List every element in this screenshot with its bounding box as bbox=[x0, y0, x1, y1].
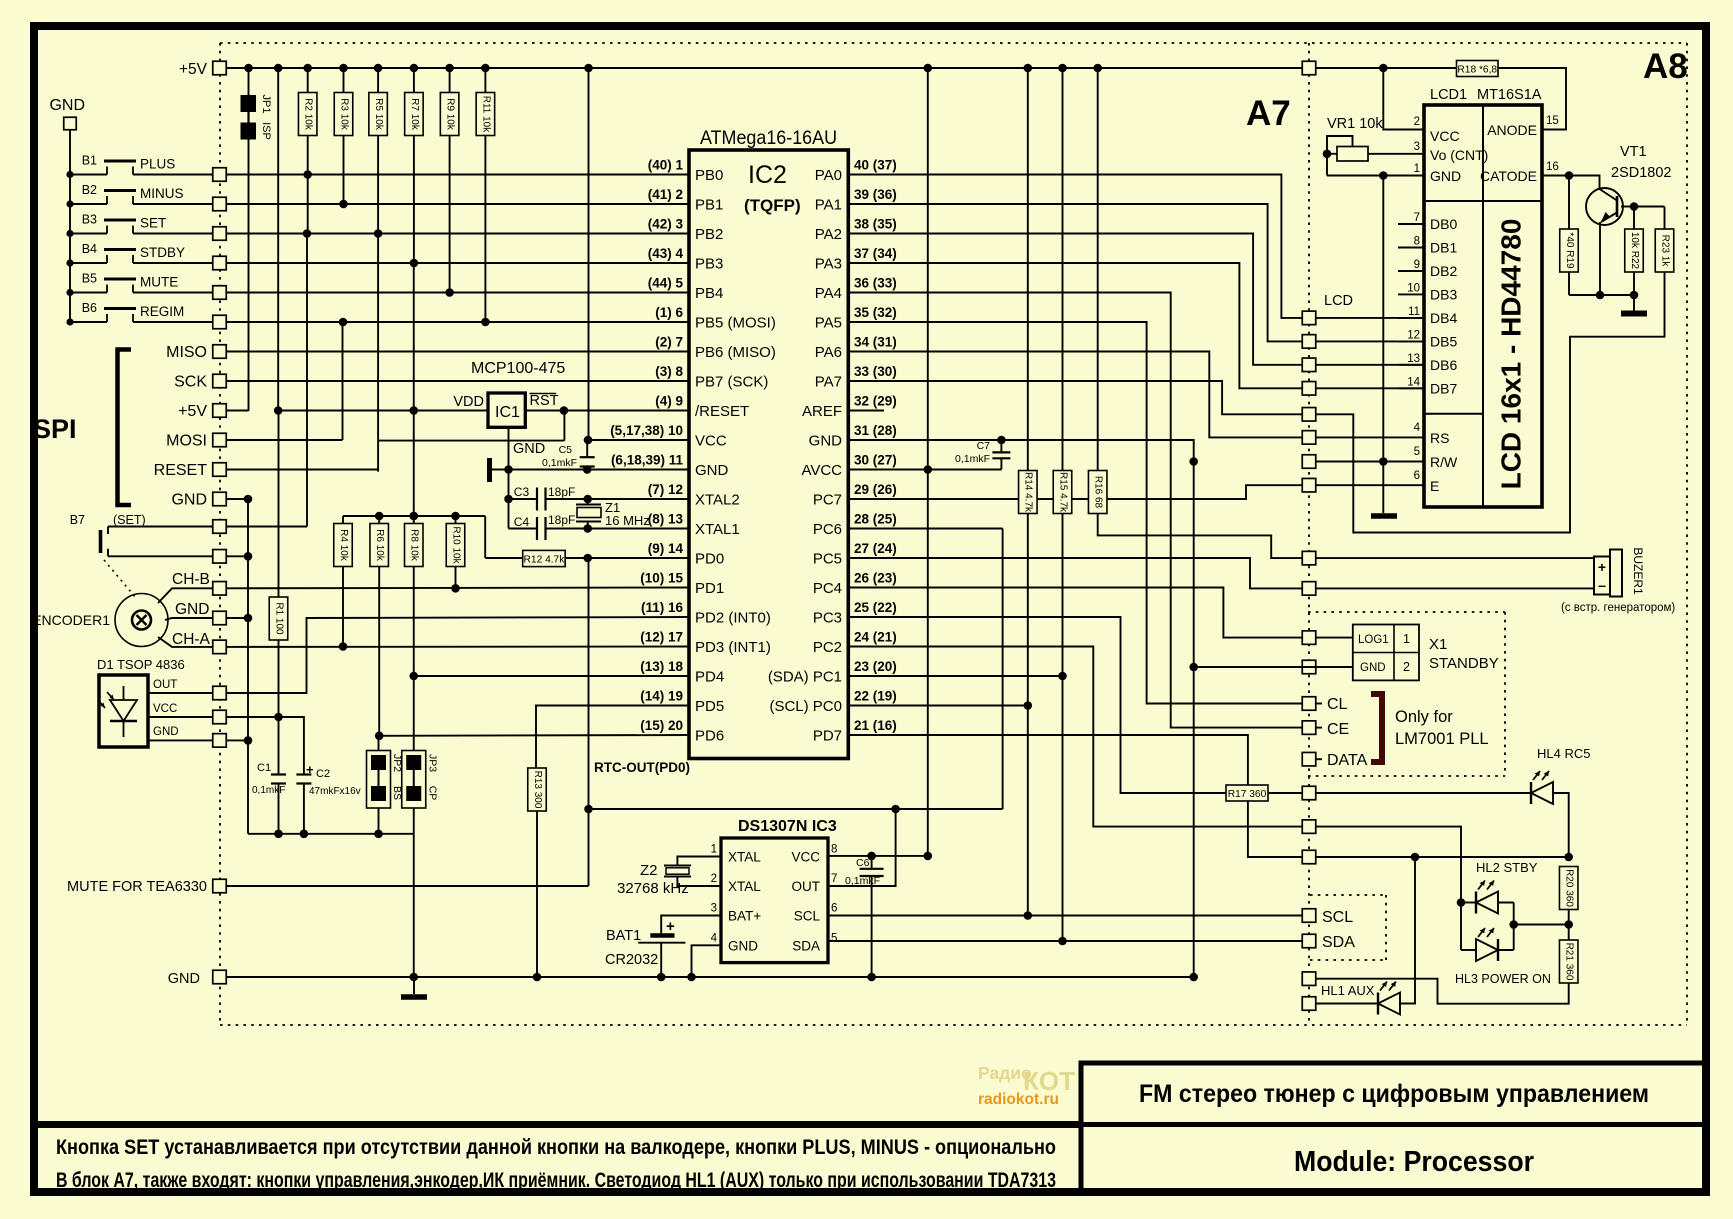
resistor R1 100 bbox=[278, 411, 280, 597]
wire PA0 to LCD DB4 bbox=[848, 175, 1302, 318]
junction RTC out run bbox=[584, 805, 593, 814]
svg-text:(14) 19: (14) 19 bbox=[640, 689, 683, 704]
svg-text:+5V: +5V bbox=[179, 61, 208, 78]
wire R17 to square bbox=[1268, 792, 1302, 794]
wire MUTE row to IC2 bbox=[226, 292, 689, 294]
terminal A7/A8 bbox=[1302, 335, 1316, 349]
svg-text:(12) 17: (12) 17 bbox=[640, 630, 683, 645]
svg-text:18pF: 18pF bbox=[548, 485, 575, 499]
svg-text:31 (28): 31 (28) bbox=[854, 423, 897, 438]
terminal A7/A8 bbox=[1302, 850, 1316, 864]
svg-text:PD4: PD4 bbox=[695, 669, 724, 686]
svg-text:C3: C3 bbox=[514, 485, 530, 499]
encoder ENCODER1 bbox=[115, 594, 168, 647]
wire VR1 to Vo bbox=[1368, 153, 1424, 155]
svg-text:OUT: OUT bbox=[792, 879, 821, 894]
terminal A7/A8 bbox=[1302, 820, 1316, 834]
svg-text:CP: CP bbox=[426, 786, 438, 801]
svg-text:R/W: R/W bbox=[1430, 454, 1458, 470]
svg-text:BUZER1: BUZER1 bbox=[1631, 547, 1645, 595]
wire +5V rail right segment bbox=[1316, 67, 1457, 69]
svg-text:radiokot.ru: radiokot.ru bbox=[978, 1091, 1059, 1108]
junction HL2 anode bbox=[1457, 898, 1466, 907]
svg-text:C7: C7 bbox=[977, 440, 991, 452]
wire XTAL1 lead bbox=[677, 857, 721, 866]
svg-text:MOSI: MOSI bbox=[166, 433, 207, 450]
wire HL4 to R20 bbox=[1553, 793, 1569, 857]
svg-text:(SCL) PC0: (SCL) PC0 bbox=[769, 698, 842, 715]
svg-text:12: 12 bbox=[1407, 329, 1420, 341]
svg-text:Z2: Z2 bbox=[640, 862, 658, 879]
wire PC1 SDA row bbox=[848, 675, 1062, 677]
junction +5V rail bbox=[374, 64, 383, 73]
wire LOG1 row bbox=[1316, 637, 1353, 639]
svg-text:13: 13 bbox=[1407, 353, 1420, 365]
wire DB6 row bbox=[1316, 364, 1424, 366]
wire LED row A bbox=[1316, 856, 1569, 858]
wire JP2 to rail bbox=[378, 808, 380, 834]
junction OUT on RTC run bbox=[891, 805, 900, 814]
wire GND row to C7 bbox=[848, 439, 1001, 441]
wire HL1 to row A bbox=[1399, 857, 1415, 1004]
resistor R20 360 bbox=[1559, 867, 1578, 910]
LED HL1 bbox=[1316, 1003, 1379, 1005]
svg-text:(40) 1: (40) 1 bbox=[648, 158, 684, 173]
wire CE row stub bbox=[1316, 727, 1322, 729]
wire PA2 to LCD DB6 bbox=[848, 234, 1302, 365]
svg-text:6: 6 bbox=[1414, 470, 1420, 482]
svg-text:9: 9 bbox=[1414, 259, 1420, 271]
svg-text:GND: GND bbox=[168, 971, 200, 987]
svg-text:R9 10k: R9 10k bbox=[444, 98, 455, 131]
svg-text:3: 3 bbox=[1414, 141, 1420, 153]
wire RW row bbox=[1316, 461, 1424, 463]
svg-text:GND: GND bbox=[175, 601, 209, 618]
svg-text:JP3: JP3 bbox=[426, 754, 438, 772]
svg-text:DB6: DB6 bbox=[1430, 357, 1457, 373]
svg-text:SDA: SDA bbox=[792, 938, 820, 953]
jumper JP3 CP bbox=[402, 751, 426, 809]
wire IC3 SCL row bbox=[828, 915, 1302, 917]
terminal GND top left bbox=[64, 117, 77, 130]
svg-text:PC2: PC2 bbox=[813, 639, 842, 656]
wire rail drop to R12 bbox=[484, 516, 486, 558]
wire MISO row bbox=[226, 351, 689, 353]
wire B7 to GND column bbox=[226, 555, 248, 557]
wire buzzer minus row bbox=[1316, 587, 1594, 589]
svg-text:24 (21): 24 (21) bbox=[854, 630, 897, 645]
wire VCC row to C2 bbox=[226, 717, 304, 775]
svg-text:CR2032: CR2032 bbox=[605, 952, 658, 968]
svg-text:PA0: PA0 bbox=[815, 167, 842, 184]
ground symbol IC1 vertical bar bbox=[487, 458, 492, 482]
wire SET row to IC2 bbox=[226, 233, 689, 235]
svg-text:SCK: SCK bbox=[174, 374, 207, 391]
wire R12 right lead bbox=[565, 557, 588, 559]
svg-text:PLUS: PLUS bbox=[140, 157, 175, 172]
svg-text:R23 1k: R23 1k bbox=[1659, 235, 1670, 268]
junction IC3 GND bbox=[687, 973, 696, 982]
terminal MUTE bbox=[213, 879, 227, 893]
wire MOSI riser to PB5 bbox=[342, 322, 344, 440]
svg-text:BAT1: BAT1 bbox=[606, 928, 641, 944]
svg-text:MUTE FOR TEA6330: MUTE FOR TEA6330 bbox=[67, 879, 207, 895]
svg-text:STANDBY: STANDBY bbox=[1429, 655, 1499, 672]
svg-text:ATMega16-16AU: ATMega16-16AU bbox=[700, 127, 837, 149]
svg-text:C6: C6 bbox=[856, 857, 870, 869]
wire encoder GND bbox=[165, 618, 213, 620]
svg-text:B7: B7 bbox=[70, 513, 85, 527]
svg-text:32 (29): 32 (29) bbox=[854, 394, 897, 409]
wire GND net column bbox=[848, 440, 1193, 977]
terminal GND bottom bbox=[213, 970, 227, 984]
svg-text:CH-B: CH-B bbox=[172, 571, 210, 588]
svg-text:B6: B6 bbox=[82, 301, 97, 315]
svg-text:VCC: VCC bbox=[1430, 128, 1460, 144]
terminal A7/A8 bbox=[1302, 582, 1316, 596]
terminal GND encoder bbox=[213, 611, 227, 625]
svg-text:MINUS: MINUS bbox=[140, 186, 184, 201]
wire CH-B row to IC2 PD1 bbox=[226, 587, 689, 590]
junction +5V rail bbox=[1093, 64, 1102, 73]
junction AVCC bbox=[924, 465, 933, 474]
dotted boundary left bbox=[219, 43, 221, 1025]
resistor R12 4.7k bbox=[523, 550, 566, 566]
terminal A7/A8 bbox=[1302, 455, 1316, 469]
wire R2 column to PLUS and SET bbox=[307, 136, 309, 234]
svg-text:36 (33): 36 (33) bbox=[854, 276, 897, 291]
svg-text:B3: B3 bbox=[82, 213, 97, 227]
junction rail C1 bbox=[274, 830, 283, 839]
terminal B7 a bbox=[213, 520, 227, 534]
terminal A7/A8 bbox=[1302, 721, 1316, 735]
wire JP3 to PD4 bbox=[413, 676, 415, 751]
wire encoder GND to ground column bbox=[226, 617, 248, 619]
wire R9 column bbox=[449, 136, 451, 293]
svg-text:PB1: PB1 bbox=[695, 197, 723, 214]
junction +5V rail bbox=[339, 64, 348, 73]
junction SCL pullup bbox=[1024, 701, 1033, 710]
junction RW gnd bbox=[1379, 457, 1388, 466]
svg-text:GND: GND bbox=[171, 492, 207, 509]
svg-text:(8) 13: (8) 13 bbox=[648, 512, 684, 527]
wire HL right vertical bbox=[1513, 903, 1515, 951]
svg-text:DB5: DB5 bbox=[1430, 333, 1457, 349]
svg-text:0,1mkF: 0,1mkF bbox=[252, 785, 285, 796]
svg-text:SCL: SCL bbox=[1322, 909, 1353, 926]
wire DB4 row bbox=[1316, 317, 1424, 319]
junction rail JP2 bbox=[374, 830, 383, 839]
svg-text:39 (36): 39 (36) bbox=[854, 187, 897, 202]
svg-text:GND: GND bbox=[49, 97, 85, 114]
svg-text:7: 7 bbox=[831, 873, 837, 885]
svg-text:6: 6 bbox=[831, 903, 837, 915]
junction battery GND bbox=[657, 973, 666, 982]
push-button B4 STDBY bbox=[66, 259, 73, 266]
junction R15 DS SDA bbox=[1058, 937, 1067, 946]
junction VCC +5V col bbox=[924, 852, 933, 861]
wire IC3 SDA row bbox=[828, 940, 1302, 942]
junction +5V rail bbox=[584, 64, 593, 73]
svg-text:VDD: VDD bbox=[453, 394, 484, 410]
resistor R11 bbox=[484, 68, 486, 93]
wire PD0 riser bbox=[588, 558, 590, 886]
wire GND SPI row bbox=[226, 498, 248, 500]
terminal MINUS bbox=[213, 197, 227, 211]
dotted box around SCL SDA bbox=[1310, 894, 1386, 896]
wire B7 to SET column bbox=[226, 526, 307, 528]
svg-text:VT1: VT1 bbox=[1620, 144, 1647, 160]
terminal A7/A8 bbox=[1302, 934, 1316, 948]
wire encoder CH-B bbox=[158, 588, 213, 603]
wire +5V rail column bbox=[277, 68, 279, 411]
wire pullup rail 516 bbox=[343, 515, 485, 517]
svg-text:R20 360: R20 360 bbox=[1564, 869, 1575, 907]
wire DB5 row bbox=[1316, 340, 1424, 342]
svg-text:PC5: PC5 bbox=[813, 551, 842, 568]
junction GND column top bbox=[244, 495, 253, 504]
wire GND column left bbox=[247, 499, 249, 834]
svg-text:C1: C1 bbox=[257, 762, 271, 774]
svg-text:C4: C4 bbox=[514, 515, 530, 529]
resistor R2 bbox=[307, 68, 309, 93]
junction +5V rail bbox=[1024, 64, 1033, 73]
bracket SPI bbox=[118, 350, 132, 506]
junction C3 row bbox=[504, 495, 513, 504]
wire GND button chain bbox=[69, 130, 71, 322]
wire LCD gnd drop bbox=[1382, 176, 1384, 514]
svg-text:PD6: PD6 bbox=[695, 728, 724, 745]
wire +5V feed column to pullup rail bbox=[413, 263, 415, 516]
wire RESET net riser bbox=[378, 440, 564, 442]
svg-text:A7: A7 bbox=[1246, 94, 1291, 133]
svg-text:PB3: PB3 bbox=[695, 256, 723, 273]
svg-text:PA3: PA3 bbox=[815, 256, 842, 273]
push-button B2 MINUS bbox=[66, 200, 73, 207]
junction R22 gnd bbox=[1630, 291, 1639, 300]
svg-text:R6 10k: R6 10k bbox=[374, 529, 385, 562]
svg-text:R13 300: R13 300 bbox=[532, 771, 543, 809]
junction encoder GND bbox=[244, 614, 253, 623]
svg-text:–: – bbox=[1598, 577, 1606, 593]
svg-text:A8: A8 bbox=[1643, 47, 1688, 86]
svg-text:MT16S1A: MT16S1A bbox=[1477, 87, 1542, 103]
wire R18 to ANODE bbox=[1498, 68, 1566, 130]
junction GND row C5 bbox=[583, 465, 592, 474]
junction C6 GND bbox=[867, 973, 876, 982]
junction row A R20 bbox=[1564, 853, 1573, 862]
svg-text:VCC: VCC bbox=[153, 703, 177, 715]
wire R6 to PD6 row bbox=[378, 567, 380, 736]
svg-text:XTAL2: XTAL2 bbox=[695, 492, 740, 509]
svg-text:PB7 (SCK): PB7 (SCK) bbox=[695, 374, 768, 391]
svg-text:LCD 16x1 - HD44780: LCD 16x1 - HD44780 bbox=[1495, 219, 1526, 490]
terminal +5V left bbox=[213, 61, 227, 75]
wire GND bottom row bbox=[226, 976, 1194, 978]
svg-text:2SD1802: 2SD1802 bbox=[1611, 165, 1671, 181]
svg-text:PB4: PB4 bbox=[695, 285, 723, 302]
terminal SET bbox=[213, 227, 227, 241]
wire PLUS row to IC2 bbox=[226, 174, 689, 176]
terminal A7/A8 bbox=[1302, 997, 1316, 1011]
junction VCC row C5 bbox=[584, 436, 593, 445]
svg-text:23 (20): 23 (20) bbox=[854, 659, 897, 674]
terminal A7/A8 bbox=[1302, 311, 1316, 325]
wire RESET row bbox=[226, 469, 378, 471]
wire PD5 row to R13 bbox=[536, 706, 689, 769]
svg-text:RTC-OUT(PD0): RTC-OUT(PD0) bbox=[594, 760, 690, 775]
junction R12 PD0 bbox=[583, 554, 592, 563]
svg-text:C5: C5 bbox=[559, 444, 573, 456]
svg-text:MCP100-475: MCP100-475 bbox=[471, 360, 565, 377]
wire R14 to SCL net bbox=[1027, 514, 1029, 916]
wire OUT row bbox=[148, 692, 213, 694]
svg-text:XTAL: XTAL bbox=[728, 879, 761, 894]
junction R11 REGIM bbox=[481, 318, 490, 327]
resistor R15 bbox=[1062, 68, 1064, 471]
svg-text:GND: GND bbox=[513, 441, 545, 457]
svg-text:16 MHz: 16 MHz bbox=[605, 513, 650, 528]
svg-text:HL1 AUX: HL1 AUX bbox=[1321, 983, 1375, 998]
junction +5V feed on VDD row bbox=[409, 512, 418, 521]
wire DATA row stub bbox=[1316, 758, 1322, 760]
wire R11 column bbox=[484, 136, 486, 323]
ground symbol VT1 bbox=[1633, 295, 1635, 311]
wire R16 to buzzer plus bbox=[1098, 514, 1302, 559]
svg-text:(3) 8: (3) 8 bbox=[655, 364, 683, 379]
wire X1 GND row bbox=[1194, 666, 1353, 668]
junction +5V rail bbox=[445, 64, 454, 73]
dotted boundary A7/A8 separator column bbox=[1308, 43, 1310, 1025]
svg-text:Only for: Only for bbox=[1395, 708, 1453, 726]
resistor R3 bbox=[343, 68, 345, 93]
svg-text:ISP: ISP bbox=[260, 122, 272, 140]
junction R8 PD4 bbox=[409, 672, 418, 681]
svg-text:HL3 POWER ON: HL3 POWER ON bbox=[1455, 972, 1551, 986]
footnote separator line bbox=[34, 1121, 1081, 1128]
svg-text:(43) 4: (43) 4 bbox=[648, 246, 684, 261]
svg-text:40 (37): 40 (37) bbox=[854, 158, 897, 173]
junction GND RW bbox=[1189, 457, 1198, 466]
svg-text:AVCC: AVCC bbox=[801, 462, 842, 479]
dotted boundary bottom bbox=[220, 1024, 1687, 1026]
svg-text:(5,17,38) 10: (5,17,38) 10 bbox=[610, 423, 683, 438]
terminal GND tsop bbox=[213, 734, 227, 748]
svg-text:47mkFx16v: 47mkFx16v bbox=[309, 786, 361, 797]
resistor R21 360 bbox=[1568, 925, 1570, 941]
svg-text:PC3: PC3 bbox=[813, 610, 842, 627]
svg-text:(SET): (SET) bbox=[113, 513, 146, 527]
junction emitter bbox=[1596, 291, 1605, 300]
wire PD4 row bbox=[414, 675, 689, 677]
svg-text:(с встр. генератором): (с встр. генератором) bbox=[1561, 602, 1675, 614]
wire PC3 to R17 bbox=[848, 617, 1226, 793]
svg-text:R17 360: R17 360 bbox=[1228, 789, 1267, 800]
svg-text:(44) 5: (44) 5 bbox=[648, 276, 684, 291]
junction IC1 GND bbox=[504, 465, 513, 474]
resistor R9 bbox=[449, 68, 451, 93]
wire VCC row bbox=[148, 716, 213, 718]
svg-text:8: 8 bbox=[831, 844, 837, 856]
svg-text:0,1mkF: 0,1mkF bbox=[542, 457, 577, 469]
terminal VCC tsop bbox=[213, 710, 227, 724]
wire RTC-OUT run bbox=[589, 808, 1003, 810]
wire PA6 to RS bbox=[848, 352, 1302, 438]
svg-text:PD7: PD7 bbox=[813, 728, 842, 745]
terminal REGIM bbox=[213, 315, 227, 329]
svg-text:RESET: RESET bbox=[154, 462, 208, 479]
junction rail R6 bbox=[375, 512, 384, 521]
svg-text:VR1 10k: VR1 10k bbox=[1327, 116, 1383, 132]
wire R21 bottom bbox=[1316, 979, 1569, 1004]
wire LED row B to HL2 HL3 bbox=[1316, 827, 1461, 950]
wire R3 column bbox=[343, 136, 345, 205]
svg-text:7: 7 bbox=[1414, 212, 1420, 224]
resistor R23 1k bbox=[1664, 207, 1666, 230]
svg-text:DB2: DB2 bbox=[1430, 263, 1457, 279]
wire +5V to LCD VCC bbox=[1383, 68, 1424, 130]
svg-text:R16 68: R16 68 bbox=[1093, 476, 1104, 509]
resistor R10 bbox=[446, 524, 465, 567]
svg-text:Vo (CNT): Vo (CNT) bbox=[1430, 147, 1488, 163]
push-button B3 SET bbox=[66, 230, 73, 237]
svg-text:PB0: PB0 bbox=[695, 167, 723, 184]
svg-text:4: 4 bbox=[1414, 422, 1421, 434]
wire GND row IC2 bbox=[509, 469, 690, 471]
svg-text:B4: B4 bbox=[82, 242, 97, 256]
svg-text:PB5 (MOSI): PB5 (MOSI) bbox=[695, 315, 776, 332]
svg-text:STDBY: STDBY bbox=[140, 245, 185, 260]
wire PC2 to LED row B bbox=[848, 647, 1302, 827]
terminal OUT bbox=[213, 686, 227, 700]
svg-text:B2: B2 bbox=[82, 183, 97, 197]
svg-text:+: + bbox=[1598, 559, 1606, 575]
push-button B1 PLUS bbox=[66, 171, 73, 178]
svg-text:PD1: PD1 bbox=[695, 580, 724, 597]
junction GND row rail bbox=[409, 973, 418, 982]
svg-text:PA2: PA2 bbox=[815, 226, 842, 243]
wire base to R23 bbox=[1634, 206, 1665, 208]
junction GND tsop bbox=[244, 736, 253, 745]
terminal A7/A8 bbox=[1302, 408, 1316, 422]
terminal A7/A8 bbox=[1302, 382, 1316, 396]
wire PA1 to LCD DB5 bbox=[848, 204, 1302, 341]
svg-text:R2 10k: R2 10k bbox=[303, 98, 314, 131]
junction R2 PLUS bbox=[303, 170, 312, 179]
svg-text:IC1: IC1 bbox=[495, 404, 520, 421]
svg-text:0,1mkF: 0,1mkF bbox=[955, 453, 990, 465]
wire R7 column bbox=[413, 136, 415, 264]
resistor R5 bbox=[377, 68, 379, 93]
junction GND row column bbox=[1189, 973, 1198, 982]
svg-text:GND: GND bbox=[153, 726, 179, 738]
wire PD0 row bbox=[588, 557, 689, 559]
svg-text:MISO: MISO bbox=[166, 344, 207, 361]
junction HL mid bbox=[1509, 920, 1518, 929]
svg-text:AREF: AREF bbox=[802, 403, 842, 420]
resistor R14 bbox=[1027, 68, 1029, 471]
junction +5V rail bbox=[274, 64, 283, 73]
junction R3 MINUS bbox=[339, 200, 348, 209]
wire PA4 to CE bbox=[848, 293, 1302, 728]
wire PC6 to RTC out run bbox=[848, 528, 1002, 530]
junction SDA pullup bbox=[1058, 672, 1067, 681]
wire SET column down to button B7 bbox=[306, 234, 308, 527]
svg-text:(6,18,39) 11: (6,18,39) 11 bbox=[611, 453, 684, 468]
wire +5V to AVCC and DS VCC bbox=[927, 68, 929, 856]
svg-text:PD2 (INT0): PD2 (INT0) bbox=[695, 610, 771, 627]
svg-text:2: 2 bbox=[1403, 660, 1410, 674]
